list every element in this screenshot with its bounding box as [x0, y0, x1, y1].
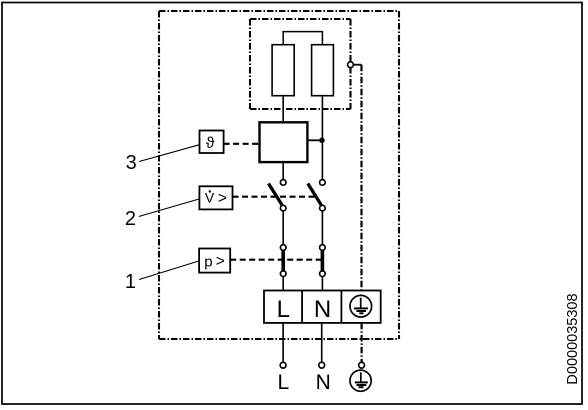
pressure switch lower terminal (N)	[320, 271, 326, 277]
external terminal circle PE	[359, 362, 365, 368]
external terminal circle N	[319, 362, 325, 368]
terminal block X1	[264, 291, 381, 323]
svg-text:N: N	[314, 296, 331, 323]
svg-text:3: 3	[126, 152, 137, 174]
wire: S2 to pressure switch	[321, 211, 323, 245]
svg-text:L: L	[277, 296, 290, 323]
wire: pressure switch to terminal N	[321, 277, 323, 291]
leader line for label 3	[139, 145, 199, 162]
junction dot on N wire	[319, 138, 325, 144]
switch contact S2 upper terminal (N)	[320, 180, 326, 186]
svg-text:ϑ: ϑ	[206, 135, 215, 152]
switch contact S2 lower terminal	[320, 205, 326, 211]
dashed link: flow sensor to switch blades	[233, 196, 317, 198]
leader line for label 2	[139, 199, 200, 217]
wire: external PE below terminal (dash-dot)	[361, 323, 363, 363]
svg-text:1: 1	[125, 271, 136, 293]
svg-text:>: >	[216, 253, 225, 270]
svg-text:N: N	[316, 371, 331, 394]
wire: PE stub from node	[353, 64, 361, 66]
dot above V (flow rate)	[209, 190, 211, 192]
svg-text:D0000035308: D0000035308	[565, 293, 581, 384]
svg-text:L: L	[277, 371, 289, 394]
heating element E2	[312, 45, 334, 96]
pressure switch upper terminal (L)	[280, 245, 286, 251]
wire: E1 to controller	[282, 96, 284, 123]
wire: external L below terminal	[282, 323, 284, 363]
external terminal circle L	[280, 362, 286, 368]
switch blade S1	[269, 184, 283, 207]
PE conductor (dash-dot) to terminal	[360, 65, 362, 296]
pressure switch contact bar (L)	[281, 250, 285, 272]
controller box U1	[260, 122, 308, 162]
terminal divider L/N	[301, 291, 303, 323]
svg-text:2: 2	[125, 208, 136, 230]
PE pickup node on element flange	[348, 62, 354, 68]
terminal divider N/PE	[340, 291, 342, 323]
switch blade S2	[308, 184, 322, 207]
pressure switch upper terminal (N)	[320, 245, 326, 251]
switch contact S1 lower terminal	[280, 205, 286, 211]
PE symbol in terminal	[350, 295, 372, 317]
svg-text:>: >	[218, 190, 227, 207]
dashed link: pressure sensor to contact bars	[230, 259, 322, 261]
appliance enclosure boundary (dash-dot)	[159, 11, 399, 339]
dashed link: thermostat to controller	[224, 143, 260, 145]
heating element E1	[272, 45, 294, 96]
pressure switch contact bar (N)	[321, 250, 325, 272]
thermostat sensor box (theta)	[200, 131, 224, 154]
pressure switch lower terminal (L)	[280, 271, 286, 277]
wire: external N below terminal	[321, 323, 323, 363]
wire: S1 to pressure switch	[282, 211, 284, 245]
wire: controller bottom to switch	[282, 162, 284, 180]
wire: bridge between heating elements	[283, 32, 322, 45]
svg-text:p: p	[204, 253, 212, 270]
heating element assembly boundary (dash-dot)	[250, 19, 351, 109]
flow sensor box V>	[199, 186, 232, 209]
wire: E2 down to switch	[321, 96, 323, 180]
wire: controller to N-wire junction	[307, 139, 322, 141]
PE symbol (mains)	[350, 370, 371, 391]
leader line for label 1	[139, 261, 199, 280]
switch contact S1 upper terminal (L)	[280, 180, 286, 186]
pressure sensor box p>	[199, 249, 230, 273]
wire: pressure switch to terminal L	[282, 277, 284, 291]
